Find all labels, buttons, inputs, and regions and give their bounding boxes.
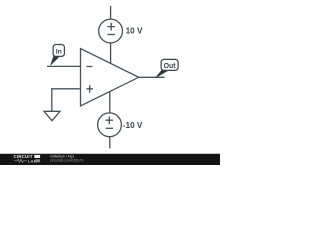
V1 plus sign (107, 23, 115, 31)
V2 minus sign (106, 127, 113, 129)
V2 plus sign (106, 117, 113, 125)
wire non-inverting input to ground (52, 89, 80, 112)
flag In pointer (51, 56, 59, 65)
op-amp plus input marker (87, 85, 94, 92)
wire In to inverting input (47, 65, 81, 67)
wire V2 bottom stub (109, 137, 111, 149)
voltage source V1 (10 V) (99, 19, 123, 43)
flag Out pointer (155, 70, 168, 78)
svg-text:10 V: 10 V (126, 27, 143, 36)
svg-text:Out: Out (164, 63, 177, 70)
wire op-amp output (139, 76, 165, 78)
V1 minus sign (107, 34, 115, 36)
svg-text:In: In (56, 49, 62, 56)
svg-text:-10 V: -10 V (123, 121, 143, 130)
op-amp U1 triangle (81, 49, 139, 107)
watermark logo squiggle (14, 159, 27, 162)
op-amp minus input marker (87, 66, 93, 68)
flag Out box (161, 59, 178, 70)
svg-text:circuitlab.com/c/tj5s76: circuitlab.com/c/tj5s76 (50, 158, 83, 162)
wire V1 to op-amp V+ pin (110, 43, 112, 64)
voltage source V2 (-10 V) (98, 113, 122, 137)
ground symbol (44, 111, 60, 120)
watermark logo white block (34, 155, 40, 158)
wire op-amp V- pin (109, 92, 111, 113)
wire V+ top stub (110, 6, 112, 19)
flag In box (53, 45, 64, 57)
watermark bar (0, 154, 220, 165)
